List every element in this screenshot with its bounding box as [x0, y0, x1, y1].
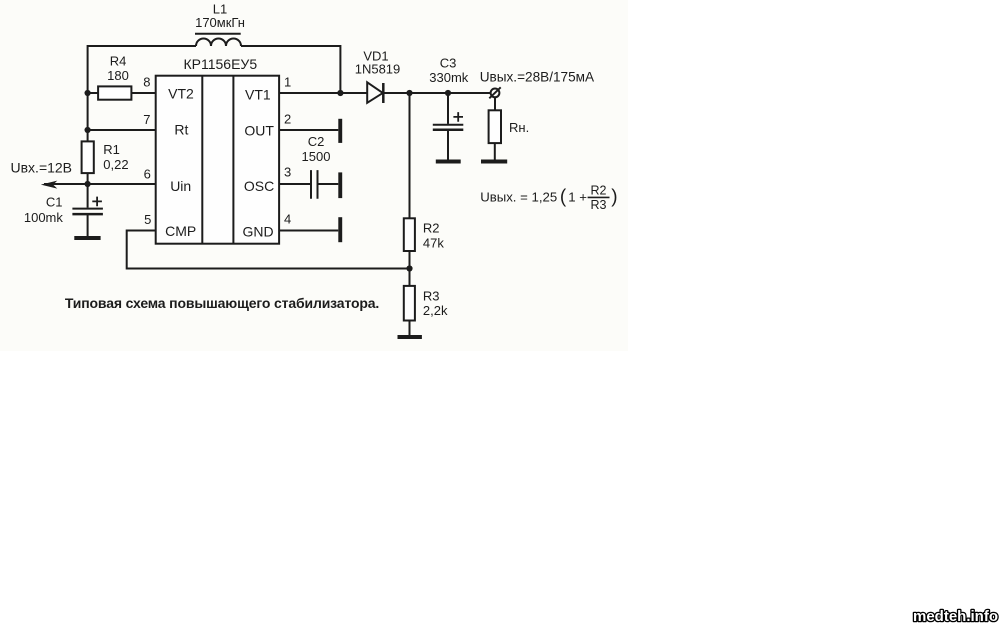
- capacitor C3: [433, 112, 464, 130]
- wire OUT pin2: [279, 129, 338, 131]
- capacitor C1: [72, 197, 103, 215]
- node Uin C1: [85, 181, 91, 187]
- svg-text:): ): [611, 187, 617, 208]
- svg-text:1 +: 1 +: [568, 189, 587, 204]
- wire OSC pin3 right: [319, 183, 339, 185]
- terminal bar pin2: [338, 119, 342, 143]
- svg-text:Uвх.=12В: Uвх.=12В: [11, 160, 73, 176]
- svg-text:180: 180: [107, 68, 129, 83]
- wire GND pin4: [279, 230, 338, 232]
- svg-text:1500: 1500: [302, 149, 331, 164]
- svg-text:(: (: [560, 187, 567, 208]
- svg-text:GND: GND: [242, 224, 273, 240]
- svg-text:6: 6: [144, 166, 151, 181]
- wire left rail: [87, 45, 89, 141]
- wire node C3 drop: [447, 93, 449, 124]
- svg-text:CMP: CMP: [165, 223, 196, 239]
- diode VD1: [367, 82, 383, 103]
- svg-text:2,2k: 2,2k: [423, 303, 448, 318]
- wire R3 to ground: [409, 321, 411, 336]
- resistor R4: [88, 86, 156, 99]
- resistor R2: [404, 218, 415, 251]
- resistor R1: [82, 141, 94, 173]
- wire CMP feedback: [127, 231, 410, 269]
- svg-text:Типовая схема повышающего стаб: Типовая схема повышающего стабилизатора.: [65, 295, 379, 311]
- svg-text:medteh.info: medteh.info: [913, 608, 998, 625]
- svg-text:R1: R1: [103, 142, 120, 157]
- resistor Rн: [489, 110, 501, 143]
- node R4 left rail: [85, 90, 91, 96]
- svg-text:C3: C3: [440, 56, 457, 71]
- svg-text:VT2: VT2: [168, 86, 194, 102]
- resistor R3: [404, 286, 415, 321]
- svg-text:VT1: VT1: [245, 86, 271, 102]
- wire C1 to ground: [87, 214, 89, 236]
- svg-text:Uin: Uin: [170, 178, 191, 194]
- svg-text:Uвых. = 1,25: Uвых. = 1,25: [480, 189, 557, 204]
- wire top rail right: [241, 45, 340, 47]
- wire node A to R2: [409, 93, 411, 218]
- svg-text:5: 5: [144, 212, 151, 227]
- ground under C3: [436, 160, 461, 164]
- formula Uвых. = 1,25 (1 + R2/R3): [480, 183, 617, 212]
- capacitor C2: [311, 170, 318, 199]
- svg-text:Rн.: Rн.: [509, 120, 529, 135]
- wire pin1 to diode: [279, 92, 367, 94]
- svg-text:0,22: 0,22: [103, 157, 128, 172]
- svg-text:R2: R2: [423, 221, 440, 236]
- svg-text:1N5819: 1N5819: [355, 62, 401, 77]
- svg-text:47k: 47k: [423, 235, 444, 250]
- svg-text:2: 2: [284, 112, 291, 127]
- scanned page area: [0, 0, 628, 351]
- input arrow: [41, 181, 58, 189]
- output terminal: [489, 87, 500, 98]
- terminal bar pin3: [338, 172, 342, 198]
- svg-text:4: 4: [284, 212, 291, 227]
- node R2 R3 feedback: [406, 265, 412, 271]
- wire R1 to C1: [87, 173, 89, 208]
- svg-text:Rt: Rt: [174, 122, 188, 138]
- wire R2 to node B: [409, 251, 411, 286]
- svg-text:КР1156ЕУ5: КР1156ЕУ5: [183, 56, 257, 72]
- inductor L1: [195, 34, 241, 46]
- svg-text:R3: R3: [423, 289, 440, 304]
- wire diode to output terminal: [383, 92, 490, 94]
- op-amp U1 КР1156ЕУ5 IC box: [156, 76, 279, 244]
- ground under R3: [398, 335, 422, 339]
- svg-text:R4: R4: [110, 54, 127, 69]
- svg-text:OSC: OSC: [244, 178, 274, 194]
- svg-text:R3: R3: [591, 198, 607, 212]
- wire OSC pin3 left: [279, 183, 310, 185]
- wire right drop to node A: [339, 45, 341, 93]
- svg-text:C1: C1: [46, 195, 63, 210]
- svg-text:1: 1: [284, 75, 291, 90]
- ground under C1: [74, 236, 100, 240]
- wire terminal to Rн: [494, 97, 496, 110]
- wire Rt row: [88, 129, 156, 131]
- svg-text:330mk: 330mk: [429, 70, 469, 85]
- svg-text:8: 8: [143, 74, 150, 89]
- node A top drop: [337, 90, 343, 96]
- svg-text:OUT: OUT: [244, 123, 274, 139]
- ground under Rн: [481, 160, 507, 164]
- svg-text:3: 3: [284, 165, 291, 180]
- wire C3 to ground: [447, 130, 449, 160]
- svg-text:7: 7: [143, 112, 150, 127]
- node diode output: [406, 90, 412, 96]
- node Rt left rail: [85, 127, 91, 133]
- svg-text:R2: R2: [591, 183, 607, 197]
- svg-text:100mk: 100mk: [24, 210, 64, 225]
- wire Rн to ground: [494, 143, 496, 159]
- wire top rail left: [88, 45, 196, 47]
- svg-text:C2: C2: [308, 134, 325, 149]
- svg-text:Uвых.=28В/175мА: Uвых.=28В/175мА: [480, 69, 595, 84]
- terminal bar pin4: [338, 217, 342, 242]
- svg-text:170мкГн: 170мкГн: [195, 15, 245, 30]
- node C3 top: [445, 90, 451, 96]
- wire input Uin row: [44, 183, 156, 185]
